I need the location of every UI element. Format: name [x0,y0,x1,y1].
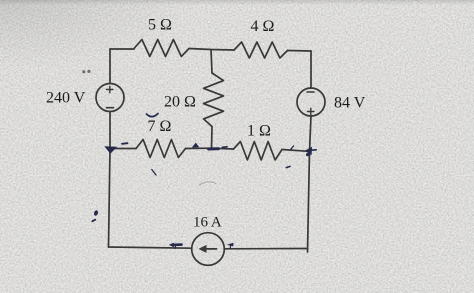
svg-text:84 V: 84 V [334,95,366,112]
svg-text:20 Ω: 20 Ω [164,93,196,110]
ink arrowhead node C (right middle junction) [305,147,312,155]
ink diagonal tick below 7Ω [152,170,156,176]
resistor 1Ω [234,142,283,161]
wire top-middle segment [189,49,234,51]
svg-text:7 Ω: 7 Ω [148,118,172,135]
ink tick right of 16A source [227,243,234,247]
wire top-left segment [110,48,134,50]
wire middle-row left stub [110,148,136,150]
wire left middle (240V to node) [109,112,111,149]
svg-text:4 Ω: 4 Ω [251,18,275,35]
wire 20Ω bottom stem [211,127,214,149]
resistor 20Ω [204,73,224,127]
ink comma mark left margin [93,210,98,217]
svg-text:240 V: 240 V [46,90,86,107]
resistor 5Ω [134,40,189,57]
ink minus tick left of 7Ω [122,142,128,145]
ink arrowhead node A (left middle junction) [104,146,117,154]
ink arrow annotation left of 16A source [173,243,182,246]
wire bottom-left segment [109,247,192,248]
voltage source 84V [297,88,325,116]
wire left lower (node to bottom-left corner) [109,149,111,248]
current source 16A arrowhead [199,245,207,253]
wire right lower (84V to bottom-right corner) [308,116,312,252]
resistor 4Ω [234,42,288,58]
wire middle-row center segment [186,147,234,150]
wire right upper (to 84V source) [310,51,312,88]
ink tick right of node B [222,146,227,149]
svg-text:16 A: 16 A [193,215,222,231]
wire 20Ω top stem [211,50,212,74]
voltage source 240V [96,84,124,112]
ink apostrophe tick near node C [291,146,294,149]
ink breve over 7Ω [147,114,159,117]
faint scan artifact arc [199,182,216,186]
ink up-arrow annotation near node B [192,143,199,148]
wire bottom-right segment [224,248,307,250]
wire middle-row right segment [282,150,309,152]
ink mark below node C [286,166,290,167]
ink dash on wire at node B (center junction) [209,147,219,150]
wire top-right segment [288,50,312,53]
resistor 7Ω [136,140,186,158]
svg-text:5 Ω: 5 Ω [148,17,172,34]
current source 16A [192,233,225,266]
ink dots annotation top-left [82,70,85,73]
wire left upper (to 240V source) [109,49,111,84]
svg-text:1 Ω: 1 Ω [247,123,271,140]
